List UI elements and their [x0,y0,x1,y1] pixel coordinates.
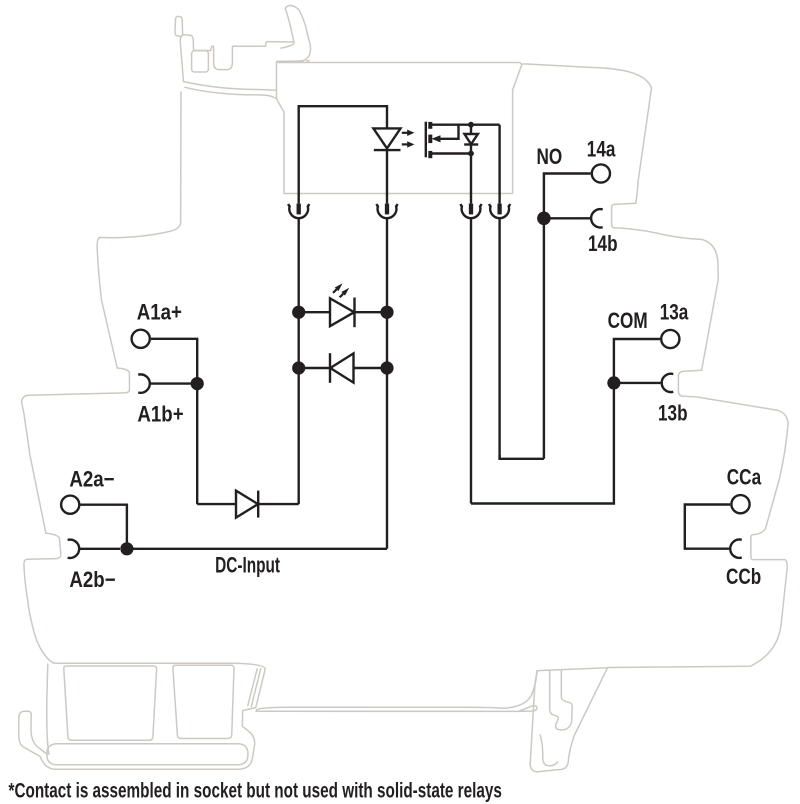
node source-diode [468,151,474,157]
MOSFET body connection with arrow [438,125,459,139]
housing: latch window [192,51,209,72]
wire A2b [79,548,120,550]
node LED right top [380,306,393,319]
svg-text:A1b+: A1b+ [137,403,183,427]
opto LED cathode bar [374,149,401,151]
node LED left top [292,306,305,319]
svg-text:A2a−: A2a− [69,468,114,492]
svg-text:14a: 14a [587,137,617,162]
housing: right clip spring slot [550,670,573,730]
node 13 [607,376,620,389]
terminal A2a circle [61,496,79,514]
wire contact3 down [470,219,472,504]
wire A1b [149,382,191,384]
housing: right clip inner lower line [540,735,557,766]
wire contact4 down [498,219,500,459]
wire LED to contact 2 [386,150,388,203]
housing: foot window 1 [64,666,157,740]
wire 13a [614,339,660,383]
wire 14a [544,174,591,459]
terminal A1b arc [138,374,150,392]
contact 2 [377,204,398,219]
housing: release-lever finger [285,6,310,61]
MOSFET source wire [430,152,471,154]
housing: right din clip outer [530,668,607,772]
housing: din rail line top [257,671,537,710]
MOSFET Q1 gate plate [425,122,427,158]
housing: latch small top-left tab [175,16,183,36]
terminal 13b arc [662,374,674,392]
wire 14b [544,217,590,219]
svg-text:A2b−: A2b− [69,569,115,593]
terminal CCb arc [730,540,742,558]
terminal 13a circle [661,330,679,348]
housing: clip bottom seat line [277,60,310,62]
node 14 [537,212,551,226]
svg-text:14b: 14b [588,232,618,257]
terminal CCa circle [731,495,749,513]
housing: top edge [277,63,652,204]
node drain-diode [468,122,474,128]
housing: left lower edge [22,395,46,533]
housing: 13b notch [678,370,701,398]
housing: foot right inner line [248,669,261,707]
contact 4 [489,204,510,219]
housing: din rail line bottom [256,710,520,712]
LED D3 arrows [333,289,337,293]
svg-text:CCb: CCb [726,565,761,590]
opto LED loop top wire [299,106,387,203]
input diode D5 [197,503,236,505]
terminal 14b arc [591,209,603,227]
terminal 14a circle [592,164,610,182]
contact 3 [461,204,482,219]
svg-text:DC-Input: DC-Input [215,554,280,578]
svg-text:NO: NO [537,145,563,170]
svg-text:A1a+: A1a+ [137,301,182,325]
MOSFET drain wire [430,123,499,125]
opto LED D1 (emitter) [373,128,400,148]
status LED D3 [299,311,330,313]
DC-Input wire [127,548,387,550]
node LED left bottom [292,361,305,374]
node A2 [120,542,133,555]
housing: A2b notch [24,533,61,663]
housing: left foot outline [19,663,266,769]
wire source to contact 3 [470,154,472,204]
svg-text:CCa: CCa [727,465,762,490]
wire CC [685,505,731,549]
terminal A2b arc [68,540,80,558]
svg-text:COM: COM [608,309,648,334]
body diode D2 [470,125,472,135]
housing: foot window 2 [173,665,234,738]
svg-text:13a: 13a [660,301,690,326]
housing: rail wedge at right clip [520,706,538,712]
wire contact2 down [386,219,388,549]
housing: foot slot [47,744,248,765]
node LED right bottom [380,361,393,374]
wire 13b [614,382,661,384]
light arrow 2 [402,141,415,147]
housing: left edge upper module [100,92,181,238]
housing: left mid edge [97,237,117,368]
wire 14 loop [500,455,544,459]
COM wire [471,383,614,504]
housing: latch arm lower line [281,44,293,48]
housing: 14b notch [612,203,702,239]
housing: A1b notch [28,368,129,395]
housing: latch-to-body shoulder arc 1 [184,82,277,91]
housing: relay box [277,63,522,194]
housing: latch-to-body shoulder arc 2 [185,87,276,98]
wire A1 junction down [196,384,198,505]
light arrow 1 [402,130,415,136]
housing: right mid edge [701,239,718,370]
housing: right lower edge [608,398,789,668]
node A1 [191,377,204,390]
contact 1 [288,204,309,219]
wire contact1 down [298,219,300,504]
svg-text:*Contact is assembled in socke: *Contact is assembled in socket but not … [9,778,502,802]
wire drain to contact 4 [498,125,500,204]
terminal A1a circle [132,330,150,348]
housing: release-lever latch body [180,35,293,82]
reverse diode D4 [299,367,330,369]
wire A1a [151,339,197,384]
housing: foot left inner edge [47,664,49,754]
wire A2a [80,505,127,549]
MOSFET channel dashes [428,122,432,129]
svg-text:13b: 13b [658,402,688,427]
